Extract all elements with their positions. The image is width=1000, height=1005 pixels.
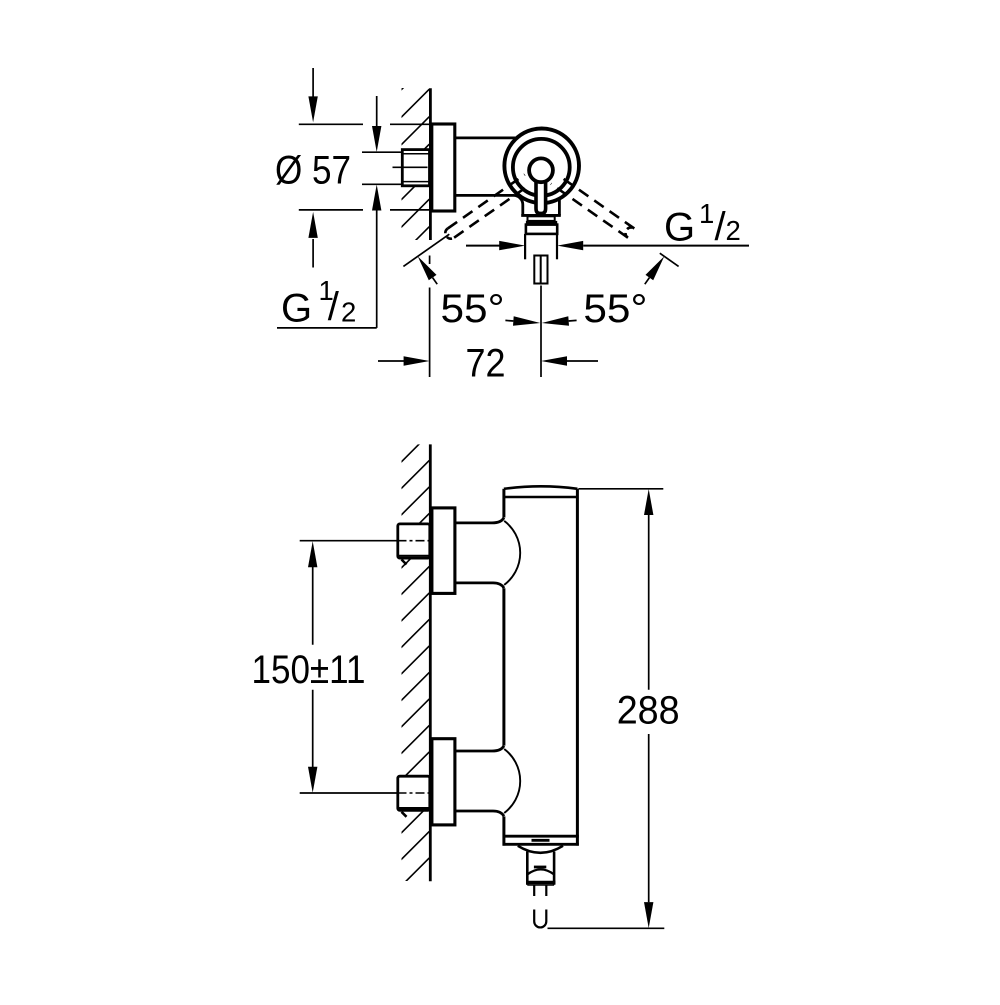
inlet centerline (top view) bbox=[393, 166, 431, 168]
55deg swing leg line right bbox=[660, 253, 679, 266]
dia 57 extension lines bbox=[299, 123, 363, 125]
outlet funnel (side view) bbox=[518, 846, 563, 853]
top inlet centerline / 150 dim extension bbox=[300, 540, 398, 542]
150 dimension line and arrows bbox=[308, 541, 317, 567]
top wall flange / escutcheon (side view) bbox=[432, 508, 455, 594]
wall line (side view) bbox=[429, 444, 432, 881]
funnel bottom rim bbox=[526, 881, 555, 884]
bottom S-union connector (side view) bbox=[455, 746, 504, 751]
288 dimension line and arrows bbox=[644, 489, 653, 515]
outlet collar (top view) bbox=[528, 216, 555, 221]
svg-text:/: / bbox=[328, 285, 340, 329]
outlet spout tube (side view) bbox=[533, 885, 535, 896]
svg-text:G: G bbox=[664, 206, 695, 250]
55deg arc arrow on right leg bbox=[646, 256, 665, 280]
svg-text:55°: 55° bbox=[441, 287, 505, 331]
svg-text:2: 2 bbox=[341, 296, 356, 327]
valve housing below handle (top view) bbox=[521, 214, 561, 217]
wall flange / escutcheon (top view) bbox=[432, 124, 455, 211]
288 extension lines bbox=[579, 488, 664, 490]
svg-text:150±11: 150±11 bbox=[252, 648, 366, 692]
outlet thread tube G1/2 (top view) bbox=[524, 234, 526, 259]
bottom wall flange / escutcheon (side view) bbox=[432, 739, 455, 825]
top S-union connector (side view) bbox=[455, 518, 504, 523]
swung lever dashed outline, left 55deg bbox=[448, 175, 525, 229]
svg-text:1: 1 bbox=[699, 198, 714, 229]
bottom inlet centerline / 150 dim extension bbox=[300, 792, 398, 794]
chamfer tick below top nut bbox=[402, 560, 407, 565]
dia 57 dimension arrows bbox=[312, 68, 314, 97]
outlet ring band (top view) bbox=[526, 225, 557, 234]
handle lever (vertical, top view) bbox=[536, 172, 546, 213]
top inlet nut (side view) bbox=[398, 524, 430, 565]
handle inner ring (top view) bbox=[513, 139, 570, 196]
G1/2 outlet dimension leader left bbox=[466, 245, 500, 247]
handle outer ring (top view) bbox=[504, 129, 579, 204]
handle knob circle (top view) bbox=[529, 158, 553, 182]
wall hatching (top view) bbox=[401, 62, 430, 283]
wall line (top view) bbox=[429, 88, 432, 240]
wall surface extension line bbox=[429, 256, 431, 265]
svg-text:2: 2 bbox=[726, 215, 741, 246]
svg-text:G: G bbox=[281, 286, 312, 330]
faucet neck outline (top view) bbox=[455, 136, 516, 139]
svg-text:72: 72 bbox=[466, 341, 506, 385]
faucet vertical centerline below outlet (top view) bbox=[540, 286, 542, 378]
chamfer tick below bottom nut bbox=[402, 812, 407, 817]
G1/2 inlet thread extension lines (top view) bbox=[362, 151, 402, 153]
swung lever dashed outline, right 55deg bbox=[551, 184, 628, 238]
inlet nut behind wall (top view) bbox=[402, 150, 429, 186]
svg-text:288: 288 bbox=[617, 689, 680, 733]
55deg swing leg line left bbox=[403, 234, 449, 266]
bottom inlet nut (side view) bbox=[398, 776, 430, 817]
body bottom cap (side view) bbox=[503, 835, 579, 838]
svg-text:Ø 57: Ø 57 bbox=[275, 148, 351, 192]
svg-text:55°: 55° bbox=[583, 287, 647, 331]
wall hatching (side view) bbox=[401, 434, 430, 887]
G1/2 outlet dimension leader right bbox=[557, 241, 583, 250]
body top cap (side view) bbox=[504, 486, 578, 489]
body right edge (side view) bbox=[576, 489, 579, 846]
72 dimension line and arrows bbox=[378, 360, 404, 362]
inner flow pin (top view) bbox=[534, 256, 547, 284]
check ball inside funnel bbox=[527, 869, 554, 874]
55deg arrows on centerline bbox=[513, 316, 540, 325]
body left edge (side view) bbox=[502, 489, 505, 518]
G1/2 inlet dimension arrows and leader bbox=[376, 96, 378, 126]
55deg arc arrow on left leg bbox=[418, 256, 437, 280]
outlet black seal band (top view) bbox=[526, 221, 557, 225]
